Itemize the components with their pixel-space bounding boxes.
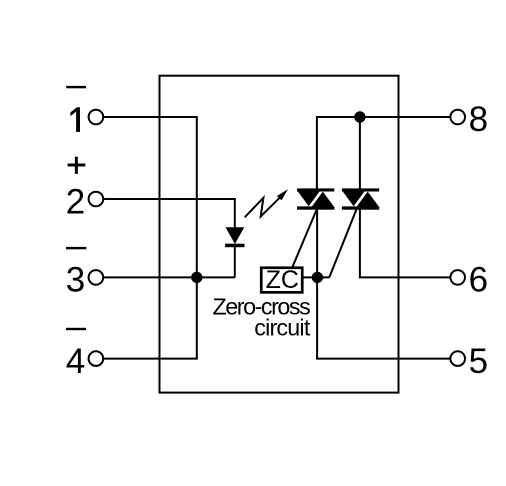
svg-text:circuit: circuit [254, 315, 311, 341]
svg-text:2: 2 [66, 183, 85, 222]
svg-text:3: 3 [66, 261, 85, 300]
svg-text:5: 5 [469, 342, 488, 381]
svg-text:6: 6 [469, 261, 488, 300]
svg-text:8: 8 [469, 100, 488, 139]
svg-text:ZC: ZC [266, 266, 299, 294]
svg-text:4: 4 [66, 342, 85, 381]
